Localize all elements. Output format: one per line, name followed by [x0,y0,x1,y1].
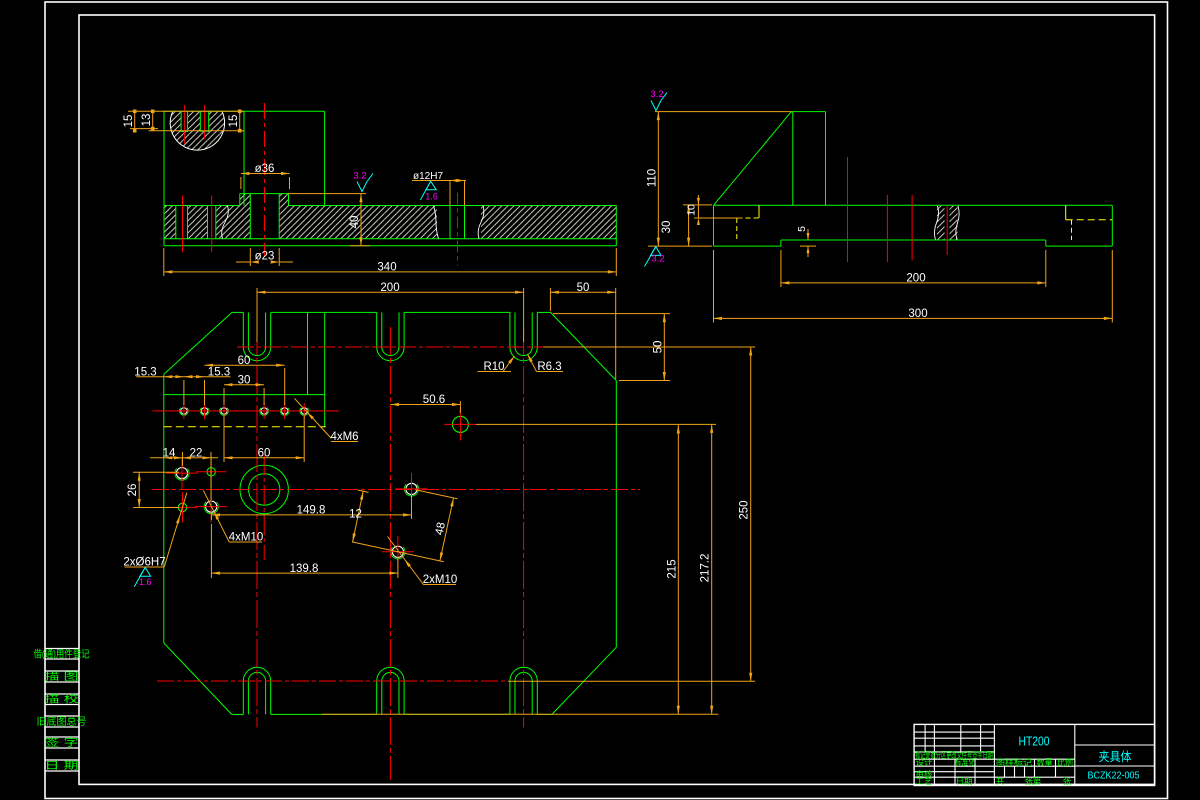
front view: top block outline [164,110,325,112]
roughness 1.6 symbol [426,181,436,190]
slab slots (black) [176,205,188,239]
dim 200 (plan top) [256,288,258,342]
dim 50.6 [390,404,460,406]
svg-text:12: 12 [349,509,362,521]
svg-text:R10: R10 [483,361,504,373]
svg-text:50.6: 50.6 [423,394,445,406]
svg-text:215: 215 [666,559,678,578]
front view: ø12H7 hole edges [449,206,451,239]
svg-text:200: 200 [906,273,925,285]
svg-text:4xM10: 4xM10 [229,532,264,544]
svg-text:217.2: 217.2 [700,554,712,583]
dim ø23 [249,248,251,266]
dim 30 [224,384,264,386]
dim 15 (left, boss slot depth) [134,111,136,130]
front view: boss slot A [181,111,188,131]
dim 10 (side) [694,217,742,219]
svg-text:旧底图总号: 旧底图总号 [37,715,87,728]
plan view: top U-slots [242,312,244,347]
svg-text:60: 60 [238,355,251,367]
leader 4xM10 [203,490,229,542]
centerline: front view ø12H7 [457,193,459,266]
svg-text:15: 15 [228,115,240,128]
dim 60 (M6 row) [205,364,285,366]
centerline: top slot row [237,346,544,348]
plan view: raised block edges [164,394,325,396]
dim 110 [655,111,792,113]
plan view: ø? locating hole (50.6) [452,416,468,432]
dim chain 14 / 22 [150,457,218,459]
boss circle arc (white) [170,111,224,150]
svg-text:描 图: 描 图 [45,670,79,683]
ext: plate bottom edge [322,713,718,715]
svg-text:ø23: ø23 [255,251,275,263]
leader R6.3 [528,354,537,372]
svg-text:第: 第 [1033,776,1042,786]
dim ø36 [241,173,290,175]
svg-text:HT200: HT200 [1019,734,1050,749]
dim 149.8 [211,514,411,516]
title block frame [914,724,1155,785]
dim 60 (lower) [224,457,304,459]
svg-text:3.2: 3.2 [650,89,663,100]
hatching: boss flanks [240,194,251,206]
side view: rib triangle [714,112,792,206]
svg-text:30: 30 [238,374,251,386]
svg-text:标准化: 标准化 [955,757,975,767]
dim 250 [750,347,752,681]
plan view: central boss circles ø36/ø23 [240,465,288,513]
dim 139.8 [210,524,212,578]
centerline: front view boss slots [183,105,185,144]
side view: hidden lines left counterbore [714,217,760,219]
side view: hidden lines right counterbore [1065,205,1067,219]
svg-text:340: 340 [377,262,396,274]
centerline: plan main horizontal [152,489,640,491]
dim 200 (side) [780,250,782,287]
leader 4xM6 [294,398,331,438]
svg-text:10: 10 [686,204,698,216]
svg-text:30: 30 [661,221,673,234]
svg-text:15.3: 15.3 [134,366,156,378]
svg-text:13: 13 [141,114,153,127]
roughness 3.2 (front view slab top) [357,182,367,192]
svg-text:149.8: 149.8 [297,505,326,517]
svg-text:图样标记: 图样标记 [996,758,1033,768]
front view: slab top edge [164,205,240,207]
centerline: side view verticals [847,157,849,262]
svg-text:日期: 日期 [956,777,973,786]
svg-text:300: 300 [908,308,927,320]
svg-text:4xM6: 4xM6 [330,431,358,443]
centerline: slot verticals [256,327,258,728]
centerline: front view slab slots [182,196,184,253]
plan view: hidden edge (yellow dashed) [164,426,326,428]
svg-text:26: 26 [127,484,139,497]
front view: hatch break lines (wavy) [222,206,229,239]
svg-text:139.8: 139.8 [290,563,319,575]
front view: slab slot L edges [175,206,177,239]
dim 15 (right) [239,111,241,130]
dim 13 [152,111,154,128]
side view: left edge [713,205,715,246]
centerline: bottom slot row [157,680,508,682]
front view: boss slot B [200,111,208,131]
dim 12 (tilted) [353,491,364,542]
plan view: top edge with slot openings [232,311,243,313]
svg-text:3.2: 3.2 [651,254,664,265]
svg-text:日 期: 日 期 [45,760,79,772]
svg-text:200: 200 [380,282,399,294]
front view: ø23 hole edges [249,194,251,239]
plan view: bottom arch slots [242,681,244,714]
svg-text:250: 250 [739,500,751,519]
plan view: M10 tapped holes [176,468,187,479]
svg-text:比例: 比例 [1057,758,1073,768]
side view: wall [791,111,825,113]
svg-text:ø36: ø36 [255,163,275,175]
svg-text:夹具体: 夹具体 [1099,750,1132,764]
dim 40 [289,193,367,195]
svg-text:40: 40 [349,216,361,229]
svg-text:借(通)用件登记: 借(通)用件登记 [34,648,90,661]
side view: base bottom with recess [714,245,781,247]
svg-text:110: 110 [646,169,658,187]
dim 5 (side) [800,245,816,247]
svg-text:设计: 设计 [916,757,933,767]
ext: hole row to 217.2 dim [476,423,716,425]
svg-text:描 校: 描 校 [45,693,79,706]
title block horizontals [914,731,994,733]
svg-text:工艺: 工艺 [916,777,933,786]
svg-text:数量: 数量 [1037,758,1053,768]
svg-text:1.6: 1.6 [425,192,438,202]
left margin table [45,648,79,650]
svg-text:5: 5 [796,226,808,232]
centerline: boss vertical [263,455,265,560]
svg-text:50: 50 [577,282,590,294]
svg-text:共: 共 [996,776,1005,786]
front view hatching: main slab [164,206,250,239]
svg-text:60: 60 [258,448,271,460]
plan view: 2xø6H7 pin holes [207,468,215,476]
svg-text:14: 14 [163,448,176,460]
ext: bottom slot centerline [508,680,755,682]
title block verticals [924,724,926,752]
plan view: 4xM6 hole row [181,408,187,414]
dim 30 (side) [683,204,712,206]
front view: ø36 counterbore boss [240,193,289,195]
plan view: bottom edge with slot openings [232,713,244,715]
svg-text:22: 22 [190,448,203,460]
plan view: corner chamfers and side edges [164,312,232,374]
leader 2xM10 [388,537,424,585]
dim 48 (tilted) [415,490,457,499]
side view: hatched hole patches [937,206,945,240]
roughness 3.2 bottom (side view) [651,247,661,256]
dim 215 [677,425,679,714]
centerline: front view ø23 [264,103,266,256]
svg-text:1.6: 1.6 [139,577,152,587]
centerline: M6 row horizontal [153,410,339,412]
front view: slab bottom / base plate [164,238,616,240]
dim 340 [163,248,165,276]
dim 217.2 [711,424,713,714]
svg-text:15.3: 15.3 [208,366,230,378]
side view: slab top edge [714,204,1113,206]
leader R10 [503,356,515,372]
svg-text:签 字: 签 字 [45,736,79,749]
roughness 3.2 top (side view) [651,101,661,111]
svg-text:R6.3: R6.3 [537,361,561,373]
dim chain 15.3 / 15.3 [136,376,230,378]
dim 50 (plan right vertical) [553,313,670,315]
front view: slab slot R edges [207,206,209,239]
svg-text:2xM10: 2xM10 [423,574,458,586]
centerline: hole crosses [166,472,198,474]
dim 50 (plan top right) [549,288,551,311]
ext: slot centerline to 250 dim [544,346,756,348]
svg-text:BCZK22-005: BCZK22-005 [1088,769,1140,781]
dim 300 (side) [713,250,715,323]
svg-text:张: 张 [1063,776,1072,786]
dim 26 [133,471,179,473]
dim ext lines (15/13/15) [128,110,244,112]
svg-text:15: 15 [123,115,135,128]
svg-text:3.2: 3.2 [353,171,366,182]
